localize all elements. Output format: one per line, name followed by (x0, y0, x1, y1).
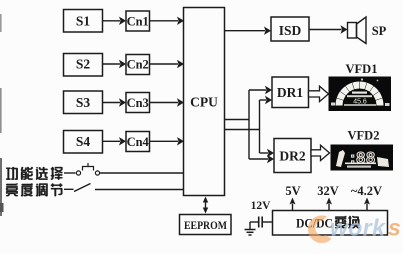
svg-text:S4: S4 (76, 134, 91, 149)
svg-text:VFD2: VFD2 (348, 129, 380, 143)
svg-text:Cn4: Cn4 (127, 135, 150, 149)
svg-text:VFD1: VFD1 (346, 62, 378, 76)
svg-text:12V: 12V (251, 200, 272, 212)
svg-text:work: work (330, 215, 386, 241)
svg-text:S1: S1 (76, 13, 91, 28)
svg-text:ISD: ISD (279, 23, 302, 38)
svg-text:DR1: DR1 (277, 85, 303, 100)
svg-text:S3: S3 (76, 95, 91, 110)
svg-text:5V: 5V (285, 184, 300, 198)
svg-text:S2: S2 (76, 57, 91, 72)
svg-text:DR2: DR2 (279, 149, 305, 164)
svg-text:s: s (388, 215, 401, 241)
svg-text:Cn2: Cn2 (127, 58, 149, 72)
svg-text:SP: SP (372, 24, 387, 38)
svg-text:EEPROM: EEPROM (184, 218, 227, 232)
svg-text::88: :88 (350, 150, 376, 167)
svg-text:Cn1: Cn1 (127, 14, 149, 28)
svg-text:Cn3: Cn3 (127, 96, 149, 110)
svg-text:CPU: CPU (190, 95, 218, 110)
svg-text:32V: 32V (317, 184, 339, 198)
svg-text:~4.2V: ~4.2V (351, 184, 382, 198)
